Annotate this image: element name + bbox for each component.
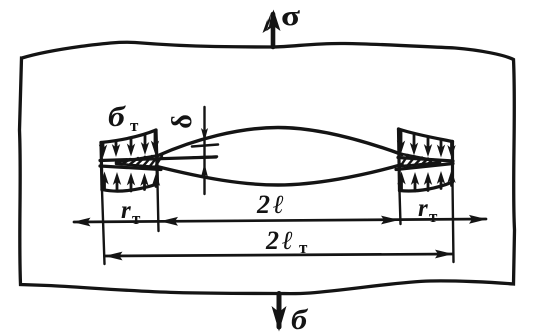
svg-text:r: r (418, 195, 428, 222)
first dimension line left outer arrowhead (73, 218, 91, 227)
delta dimension upper arrowhead (down) (201, 128, 208, 142)
svg-text:т: т (130, 116, 139, 135)
right plastic zone lower face line (396, 164, 453, 170)
left zone top stress arrows (pointing down) (99, 131, 159, 158)
right zone top stress arrows (pointing down) (397, 131, 456, 158)
first dimension line (r_T / 2l / r_T) (74, 219, 486, 222)
delta reference tick upper (192, 145, 218, 147)
left plastic zone right edge (156, 130, 158, 184)
left plastic zone wedge upper boundary (116, 156, 157, 163)
plate outline (20, 42, 515, 293)
svg-text:б: б (291, 304, 309, 336)
right plastic zone wedge upper boundary (402, 154, 440, 162)
svg-text:2ℓ: 2ℓ (256, 190, 287, 219)
svg-text:σ: σ (281, 0, 301, 31)
first dimension line right outer arrowhead (469, 215, 487, 224)
delta dimension lower arrowhead (up) (201, 164, 208, 178)
right plastic zone upper face line (398, 158, 453, 162)
left plastic zone lower face line (100, 166, 161, 170)
svg-text:δ: δ (167, 114, 198, 129)
right plastic zone left edge (399, 129, 400, 191)
delta dimension vertical line (203, 107, 205, 194)
right outer extension line (453, 182, 454, 262)
left outer extension line (102, 190, 105, 264)
right plastic zone bottom edge (400, 182, 453, 191)
right zone bottom stress arrows (pointing up) (397, 170, 455, 191)
bottom applied-stress arrowhead (272, 306, 287, 332)
delta reference tick lower (193, 157, 217, 158)
left plastic zone wedge lower boundary (116, 164, 157, 167)
left zone bottom stress arrows (pointing up) (100, 172, 160, 192)
right crack-tip extension line (400, 191, 401, 225)
2l left arrowhead (160, 217, 178, 226)
svg-text:т: т (299, 238, 308, 257)
second dimension line (2l_T) (105, 254, 454, 256)
svg-text:т: т (429, 207, 438, 226)
left plastic zone upper face / delta reference line (100, 157, 216, 161)
left plastic zone top edge (101, 130, 156, 143)
2l right arrowhead (381, 216, 399, 225)
left plastic zone bottom edge (102, 184, 158, 191)
2l_T right arrowhead (435, 250, 453, 259)
top applied-stress arrow shaft (271, 14, 276, 47)
bottom applied-stress arrow shaft (277, 294, 282, 328)
crack upper face curve (157, 128, 402, 157)
svg-text:б: б (108, 101, 126, 133)
2l_T left arrowhead (105, 252, 123, 261)
right plastic zone hatching (400, 155, 433, 167)
right plastic zone wedge lower boundary (402, 163, 440, 167)
left plastic zone hatching (122, 155, 162, 167)
top applied-stress arrowhead (263, 10, 281, 34)
svg-text:2ℓ: 2ℓ (265, 226, 296, 255)
right plastic zone top edge (399, 129, 453, 142)
svg-text:r: r (121, 197, 131, 224)
svg-text:т: т (132, 209, 141, 228)
left plastic zone left edge (101, 143, 102, 191)
crack lower face curve (157, 165, 402, 186)
left crack-tip extension line (158, 184, 159, 231)
right plastic zone right edge (451, 142, 454, 183)
